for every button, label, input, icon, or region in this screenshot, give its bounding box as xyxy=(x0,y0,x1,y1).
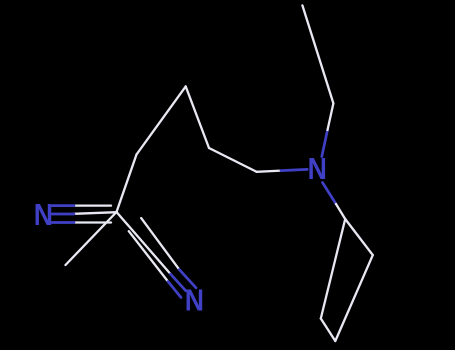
wire A to K xyxy=(117,155,137,213)
nitrile N1 triple bond: top line white xyxy=(74,204,111,206)
bond C3 to N3: white half xyxy=(257,171,281,172)
ring side P3-P4 xyxy=(335,255,373,341)
svg-text:N: N xyxy=(308,152,327,186)
nitrile 2: side line upper white xyxy=(141,218,179,270)
bond N3 to V_up: white half xyxy=(328,103,334,130)
nitrile 2: center line blue part to N2 xyxy=(171,274,186,291)
svg-text:N: N xyxy=(185,284,204,318)
bond N3 to R1: white half xyxy=(336,204,345,219)
nitrile 2: side line lower blue xyxy=(168,282,181,298)
bond C3 to N3: blue half xyxy=(281,169,307,170)
wire B1 to C3 xyxy=(209,148,257,172)
nitrile 2: side line upper blue xyxy=(179,270,196,288)
wire apex to B1 xyxy=(186,86,209,148)
ring side R1-P2 xyxy=(321,219,345,319)
nitrile N1 triple bond: mid line white xyxy=(74,212,117,214)
ring side P2-P3 xyxy=(321,319,336,342)
wire K to apex xyxy=(137,86,186,154)
nitrile 2: center line white part from A xyxy=(117,212,171,274)
nitrile N1 triple bond: blue halves near N1 xyxy=(52,206,74,223)
nitrile N1 triple bond: bottom line white xyxy=(74,221,111,223)
wire A to methyl M xyxy=(66,212,117,265)
bond N3 to V_up: blue half xyxy=(322,130,328,157)
nitrile 2: side line lower white xyxy=(129,231,168,281)
ring side P4-R1 xyxy=(345,219,373,255)
bond N3 to R1: blue half xyxy=(323,183,337,205)
svg-text:N: N xyxy=(34,198,53,232)
wire V_up to E_top xyxy=(302,5,333,103)
